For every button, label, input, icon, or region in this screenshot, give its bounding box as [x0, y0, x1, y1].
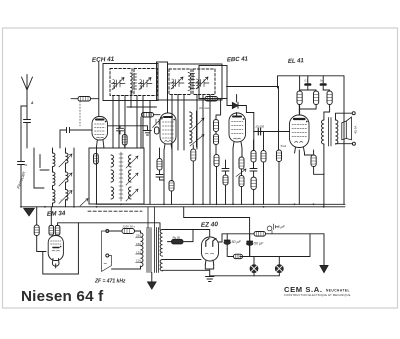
resistor right of V1: [142, 113, 154, 118]
antenna: [22, 75, 35, 106]
wire transformer connections: [324, 113, 353, 174]
capacitor mid a: [156, 175, 164, 181]
svg-text:110: 110: [136, 259, 141, 263]
label 1k antenna: [25, 163, 28, 167]
svg-text:25 000: 25 000: [255, 125, 265, 129]
wire EM34 contacts up: [51, 207, 78, 226]
output transformer primary: [322, 120, 324, 144]
wire grid tube V1 top: [98, 62, 100, 117]
resistor EM34 grid: [34, 207, 46, 252]
coil unit box: [89, 148, 144, 204]
wire V4 grid in: [254, 131, 290, 133]
chassis bus lower: [21, 206, 345, 208]
coil antenna L1: [53, 153, 56, 167]
wire switch to primary: [112, 266, 141, 269]
wire T2 drop b: [177, 95, 179, 151]
label 8uF: [278, 225, 286, 229]
coil unit winding f: [129, 187, 132, 199]
speaker: [342, 117, 358, 140]
transformer core: [147, 207, 159, 273]
resistor grid EL: [277, 150, 282, 204]
trimmer between V1 V2: [153, 117, 163, 128]
wire T1 drop d: [136, 96, 138, 149]
wire shield drop to V2: [167, 100, 169, 113]
wire T2 drop c: [196, 95, 198, 150]
pilot lamp 1: [250, 257, 258, 276]
tube V1 ECH41 envelope: [92, 117, 108, 141]
svg-text:6: 6: [66, 198, 68, 202]
transformer heater secondary: [160, 260, 162, 271]
switch wafer contacts: [119, 152, 123, 201]
coil small in T1 secondary: [140, 80, 142, 90]
wire V1 pins down: [97, 147, 104, 205]
wire V3 pins down: [233, 148, 242, 204]
wire T1 drop b: [118, 96, 120, 149]
tube V3 anode: [233, 117, 245, 120]
wire V1 plate to resistor: [108, 115, 161, 148]
wire EZ40 anode top: [209, 230, 211, 238]
wire mains top: [109, 231, 141, 233]
wire B+ to output transformer: [300, 76, 344, 205]
ground mid small: [144, 126, 151, 135]
resistor R osc grid: [157, 148, 162, 174]
transformer primary winding: [141, 233, 144, 267]
resistor AF a: [251, 140, 256, 168]
capacitor V1 grid: [60, 127, 92, 148]
volume pot: [239, 157, 244, 176]
trimmer C in T1 secondary: [139, 78, 153, 90]
junction dots mid: [20, 203, 325, 207]
wire EZ40 ground: [205, 265, 213, 277]
ground transformer: [148, 273, 156, 290]
wire T1 drop e: [142, 96, 144, 149]
resistor surge: [163, 230, 210, 244]
wire T2 drop e: [209, 95, 211, 205]
capacitor AF a: [250, 162, 257, 171]
svg-text:125: 125: [136, 250, 141, 254]
svg-text:150: 150: [136, 242, 141, 246]
tube V3 grids: [232, 122, 244, 134]
resistor AGC top-left: [78, 97, 91, 102]
tube V1 grids: [95, 124, 106, 135]
resistor screen b: [300, 91, 319, 109]
capacitor mid d: [222, 160, 229, 175]
shield box between IF cans: [157, 62, 168, 100]
mains plug bottom: [106, 254, 109, 257]
arrow in coil unit c: [126, 189, 138, 201]
svg-text:220: 220: [136, 234, 141, 238]
tube V1 pins: [97, 140, 104, 147]
coil unit winding b: [111, 170, 114, 182]
core arrow L6: [59, 191, 72, 204]
wire EBC plate up: [242, 113, 254, 158]
resistor top between T2 and EBC: [205, 97, 218, 102]
wire output return: [323, 174, 325, 207]
ground EZ40: [206, 277, 215, 282]
IF transformer T1 secondary box: [134, 69, 157, 96]
tube V2 envelope: [160, 113, 176, 144]
wire T2 drop a: [171, 95, 173, 151]
wire antenna lead: [21, 90, 27, 160]
svg-text:50 µF: 50 µF: [232, 240, 242, 244]
wire cap returns: [227, 234, 310, 257]
text 5mA: [281, 144, 287, 148]
core arrow L5: [59, 173, 72, 186]
svg-text:NEUCHATEL: NEUCHATEL: [326, 289, 350, 293]
coil osc L5: [66, 172, 69, 182]
wire heater to EZ40: [163, 260, 210, 271]
pilot lamp 2: [275, 257, 283, 276]
capacitor near V1 pin: [117, 126, 124, 134]
EM34 pins: [52, 259, 59, 267]
svg-text:5mA: 5mA: [281, 144, 287, 148]
detector coil: [190, 111, 197, 147]
wire T1 drop c: [124, 96, 126, 149]
output transformer core: [329, 118, 332, 147]
label 50uF 1: [232, 240, 242, 244]
wire T2 coil drop: [183, 95, 185, 151]
coil small in T2 primary: [172, 79, 174, 89]
IF can T2 outline: [168, 64, 223, 100]
EZ40 plates: [206, 238, 216, 246]
svg-text:50 µF: 50 µF: [254, 242, 264, 246]
resistor smoothing: [254, 232, 266, 237]
resistor in coil unit: [94, 154, 99, 165]
capacitor screen a: [305, 76, 311, 90]
tube V2 pins: [164, 144, 172, 150]
capacitor 8uF: [267, 224, 278, 234]
EZ40 heater: [205, 252, 214, 255]
wire coil feeds left: [34, 148, 66, 190]
resistor screen a: [297, 76, 316, 105]
tube V2 heater: [165, 140, 172, 143]
tube V3 pins: [233, 142, 242, 148]
svg-text:ECH 41: ECH 41: [92, 56, 115, 64]
wire V2 pins down: [164, 150, 172, 204]
svg-text:CONSTRUCTION ELECTRIQUE ET MEC: CONSTRUCTION ELECTRIQUE ET MECANIQUE: [284, 293, 351, 297]
resistor mid c: [214, 99, 221, 205]
capacitor det mid: [214, 132, 219, 155]
wire T2 drop d: [202, 95, 204, 205]
EM34 top contact b: [55, 226, 60, 236]
capacitor coupling EL: [255, 125, 265, 136]
switch arrow left unit: [80, 199, 88, 207]
tube V3 heater: [234, 137, 241, 140]
coil T2: [188, 73, 195, 91]
wire antenna lead lower: [20, 167, 22, 207]
output transformer secondary: [336, 120, 338, 144]
trimmer C in T2 secondary: [196, 77, 210, 89]
coil small in T2 secondary: [196, 79, 198, 89]
resistor under V1: [122, 129, 127, 148]
tube V4 EL41 envelope: [290, 115, 310, 148]
coil small in T1 primary: [113, 80, 115, 90]
resistor det load: [191, 145, 196, 204]
resistor mid b: [169, 181, 174, 205]
coil T1: [130, 73, 137, 91]
terminal speaker bottom: [352, 142, 355, 145]
mains plug top: [106, 230, 109, 233]
resistor screen c: [323, 90, 332, 120]
wire B+ rail top: [278, 76, 345, 88]
resistor cathode EL: [311, 150, 324, 174]
volume pot lower: [239, 176, 244, 205]
svg-text:~: ~: [104, 262, 108, 268]
EZ40 pins: [205, 260, 213, 265]
arrow in coil unit b: [126, 173, 138, 185]
core arrow L4: [59, 154, 72, 167]
svg-text:ZF = 471 kHz: ZF = 471 kHz: [94, 279, 126, 285]
primary tap labels: [136, 234, 141, 263]
resistor AF b: [261, 132, 266, 205]
tube V2 grids: [163, 122, 174, 138]
wire EZ40 cathode B+: [219, 234, 255, 242]
capacitor screen b: [320, 76, 326, 90]
fuse: [122, 229, 135, 234]
wire lamp bottom rail: [210, 275, 280, 277]
svg-text:8 µF: 8 µF: [278, 225, 286, 229]
trimmer C in T2 primary: [171, 77, 185, 89]
tube V4 grids: [292, 125, 307, 137]
arrow detector coil lower: [190, 135, 204, 147]
IF transformer T1 primary box: [110, 69, 132, 96]
text An max: [198, 106, 210, 110]
chassis bus upper: [96, 203, 345, 205]
wire AGC resistor leads: [71, 99, 99, 126]
arrow in coil unit a: [126, 156, 138, 168]
svg-text:An. max: An. max: [198, 106, 210, 110]
arrow volume pot: [236, 169, 246, 177]
svg-text:4Ω 5A: 4Ω 5A: [354, 126, 358, 134]
mains AC symbol: [104, 262, 108, 268]
tube V4 anode: [294, 119, 308, 122]
capacitor filter 1: [224, 234, 230, 249]
capacitor under trimmer: [155, 127, 159, 134]
tube V4 pins: [295, 148, 305, 154]
wire coil bottoms to bus: [53, 148, 75, 207]
coil unit winding a: [111, 155, 114, 167]
wire V4 cathode down: [299, 150, 313, 204]
tube V4 heater: [295, 141, 303, 144]
wire heater rail: [78, 223, 160, 230]
svg-text:EM 34: EM 34: [47, 210, 66, 218]
terminal speaker top: [352, 112, 355, 115]
svg-text:220V 50∿: 220V 50∿: [122, 225, 136, 229]
coil antenna L2: [53, 172, 56, 186]
svg-text:EZ 40: EZ 40: [201, 221, 219, 229]
IF can T1 outline: [103, 64, 158, 101]
coil osc L6: [66, 190, 69, 200]
tube EM34 envelope: [48, 236, 63, 261]
wire EM34 loop: [43, 223, 79, 274]
svg-text:Rg 50: Rg 50: [173, 236, 181, 240]
trimmer C in T1 primary: [112, 78, 126, 90]
fuse label: [122, 225, 136, 229]
EM34 internals: [51, 241, 62, 251]
svg-text:EBC 41: EBC 41: [227, 56, 249, 63]
IF transformer T2 primary box: [169, 69, 191, 95]
ground arrow right: [320, 266, 328, 273]
svg-text:Niesen 64 f: Niesen 64 f: [21, 288, 104, 305]
resistor mid e: [223, 175, 228, 204]
capacitor antenna series: [18, 160, 25, 167]
shield box right of T2: [199, 66, 227, 99]
wire B+ out: [266, 233, 325, 235]
resistor bias: [228, 254, 243, 258]
label 50uF 2: [254, 242, 264, 246]
tube V1 anode: [96, 120, 107, 123]
wire AF coupling run: [227, 86, 279, 88]
resistor AF a2: [251, 171, 256, 204]
wire T1 drop f: [149, 101, 151, 205]
ground main: [24, 208, 34, 216]
tube EZ40 envelope: [202, 237, 219, 261]
coil unit winding c: [111, 187, 114, 199]
diode above V3: [227, 102, 254, 116]
wire EL41 grid drop: [278, 87, 280, 151]
text winding numbers: [52, 198, 68, 202]
transformer HT secondary: [160, 230, 162, 257]
svg-text:CEM S.A.: CEM S.A.: [284, 285, 323, 294]
wire T1 drop a: [112, 96, 114, 149]
coil unit winding d: [129, 155, 132, 167]
tube V2 anode: [164, 117, 175, 120]
coil osc L4: [66, 153, 69, 163]
resistor det upper: [214, 120, 219, 132]
arrow detector coil: [190, 118, 204, 132]
coil unit winding e: [129, 170, 132, 182]
svg-text:3: 3: [52, 198, 54, 202]
EM34 top contact a: [49, 226, 54, 236]
wire T1 coil drop: [127, 91, 157, 108]
wire V4 top: [298, 105, 300, 116]
wire resistor to detector node: [199, 98, 221, 100]
svg-text:A: A: [30, 101, 34, 105]
wire V3 top: [227, 95, 237, 106]
primary taps: [136, 237, 141, 262]
wire heater distribution: [184, 207, 250, 257]
mains switch: [102, 231, 112, 272]
svg-text:EL 41: EL 41: [288, 58, 305, 65]
wire B+ down right: [323, 234, 325, 265]
svg-text:::: ::: [60, 198, 62, 202]
tube V1 heater: [97, 136, 104, 139]
capacitor filter 2: [247, 234, 253, 250]
tube V3 EBC41 envelope: [229, 113, 246, 142]
coil antenna L3: [53, 190, 56, 204]
capacitor antenna trim: [24, 106, 31, 148]
IF transformer T2 secondary box: [193, 69, 215, 95]
svg-text:5m: 5m: [320, 80, 323, 83]
band switch dashed link: [88, 210, 142, 212]
